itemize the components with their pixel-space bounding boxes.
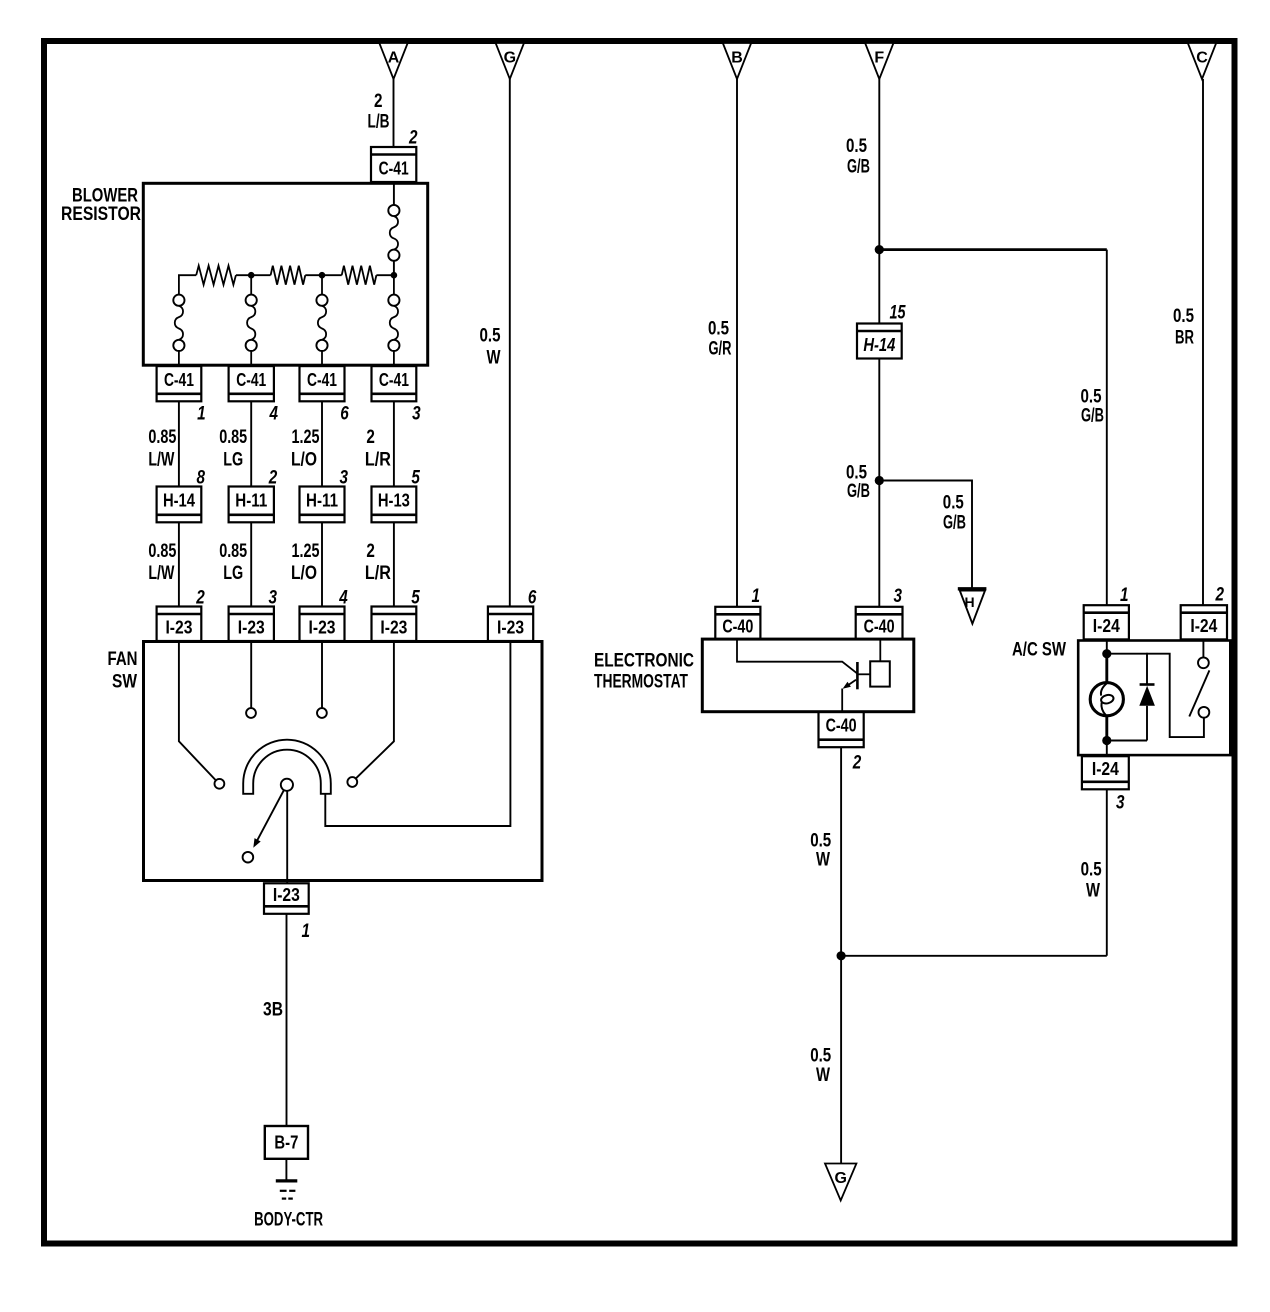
svg-text:G/B: G/B — [1081, 406, 1104, 427]
connector I-23 pin 1 (bottom) — [264, 883, 309, 914]
wire F to H-14 — [878, 79, 880, 324]
svg-text:G/R: G/R — [709, 339, 732, 360]
svg-text:L/R: L/R — [365, 563, 391, 584]
svg-text:1: 1 — [302, 921, 311, 942]
connector I-23 #3 — [300, 607, 345, 642]
svg-text:1.25: 1.25 — [292, 427, 320, 448]
wire C to I-24 pin 2 — [1202, 79, 1204, 605]
A/C switch upper contact circle — [1198, 657, 1209, 668]
wire C-41 #1 to H box — [178, 401, 180, 486]
wire G to I-23 pin 6 — [509, 79, 511, 607]
svg-text:0.5: 0.5 — [1081, 387, 1102, 408]
wire I-23 pin1 to B-7 — [286, 914, 288, 1126]
svg-text:I-23: I-23 — [380, 618, 407, 638]
wire coil branch 1 to box bottom — [178, 351, 180, 365]
svg-text:FAN: FAN — [108, 649, 138, 670]
svg-text:C-40: C-40 — [826, 716, 857, 736]
svg-text:3: 3 — [1116, 793, 1125, 814]
fan switch wire from pin 6 (to rotor arc) — [325, 642, 510, 827]
diode D1 — [1146, 653, 1148, 685]
svg-text:L/O: L/O — [291, 450, 317, 471]
wire node to coil branch 2 — [250, 275, 252, 295]
node junction dot (lamp top) — [1102, 649, 1111, 658]
svg-text:0.5: 0.5 — [846, 136, 867, 157]
fan switch contact circle (pin 4) — [317, 708, 327, 718]
wire junction to H ground (horizontal+vertical) — [879, 481, 972, 589]
svg-text:H-13: H-13 — [378, 491, 410, 511]
svg-text:L/O: L/O — [291, 563, 317, 584]
svg-text:L/R: L/R — [365, 450, 391, 471]
node junction dot (F to ground H) — [875, 476, 884, 485]
svg-text:C-41: C-41 — [379, 370, 409, 390]
wire down to I-24 pin 1 — [1106, 250, 1108, 606]
svg-text:I-23: I-23 — [497, 618, 524, 638]
svg-text:G/B: G/B — [847, 157, 870, 178]
svg-text:4: 4 — [269, 404, 279, 425]
wire coil to junction — [393, 261, 395, 275]
node junction dot (F to A/C SW) — [875, 245, 884, 254]
connector H-11 — [229, 487, 274, 523]
node junction dot 3 (resistor chain) — [391, 272, 398, 279]
transistor Q1 base bar — [856, 662, 859, 689]
connector C-41 (row) #2 — [229, 366, 274, 401]
svg-text:H-11: H-11 — [306, 491, 338, 511]
ground connector G (triangle) — [825, 1164, 856, 1201]
svg-text:I-24: I-24 — [1093, 616, 1120, 636]
page connector C (triangle) — [1188, 43, 1216, 79]
svg-text:5: 5 — [411, 468, 420, 489]
wire H-13 to I-23 — [393, 522, 395, 606]
svg-text:3: 3 — [269, 588, 278, 609]
resistor element coil branch 1 — [173, 295, 184, 351]
wire C-41 #4 to H box — [393, 401, 395, 486]
svg-text:2: 2 — [408, 128, 418, 149]
svg-text:5: 5 — [411, 588, 420, 609]
connector H-14 (F column) — [857, 324, 902, 359]
svg-text:0.85: 0.85 — [219, 541, 247, 562]
svg-text:8: 8 — [196, 468, 205, 489]
wire R2 to node — [305, 274, 341, 276]
connector I-24 pin 2 — [1181, 605, 1227, 639]
fan switch wire from pin 3 — [250, 642, 252, 709]
svg-text:2: 2 — [268, 468, 278, 489]
svg-text:2: 2 — [366, 541, 375, 562]
svg-text:0.5: 0.5 — [943, 493, 964, 514]
svg-text:C: C — [1196, 50, 1208, 67]
svg-text:2: 2 — [852, 753, 862, 774]
resistor R2 (chain middle) — [271, 266, 306, 285]
page connector B (triangle) — [723, 43, 751, 79]
indicator lamp L1 — [1090, 683, 1123, 716]
wire R3 to pin2 branch — [376, 274, 394, 276]
wire junction down to ground G — [840, 956, 842, 1164]
fan switch contact circle (pin 2) — [215, 779, 225, 789]
connector C-41 (row) #4 — [372, 366, 417, 401]
wire junction to A/C SW pin 1 (horizontal) — [879, 248, 1107, 251]
transistor Q1 collector wire — [859, 673, 871, 675]
svg-text:A: A — [388, 50, 400, 67]
fan switch wire from pin 4 — [321, 642, 323, 709]
blower resistor box — [143, 183, 427, 365]
ground symbol BODY-CTR — [276, 1179, 298, 1182]
svg-text:0.5: 0.5 — [810, 831, 831, 852]
svg-text:3: 3 — [412, 404, 421, 425]
svg-text:1: 1 — [197, 404, 206, 425]
svg-text:2: 2 — [1215, 585, 1225, 606]
wire lamp top dot to switch (over, down, over) — [1107, 654, 1204, 737]
wire node to coil branch 4 — [393, 275, 395, 295]
wire node to coil branch 3 — [321, 275, 323, 295]
wire sensor to C-40 pin 3 — [879, 639, 881, 661]
connector C-41 pin 2 (top) — [371, 147, 416, 182]
fan switch wire from pin 5 (diagonal to contact) — [356, 642, 394, 779]
wire C-41 pin2 into resistor box — [393, 182, 395, 205]
page connector F (triangle) — [865, 43, 893, 79]
svg-text:2: 2 — [366, 427, 375, 448]
svg-text:I-23: I-23 — [165, 618, 192, 638]
wire I-24 pin1 into A/C SW — [1106, 639, 1108, 650]
svg-text:L/W: L/W — [148, 450, 174, 471]
connector C-41 (row) #3 — [300, 366, 345, 401]
svg-text:15: 15 — [890, 303, 906, 324]
fan switch wiper arrow (lever) — [257, 790, 284, 840]
svg-text:RESISTOR: RESISTOR — [61, 204, 141, 225]
svg-text:LG: LG — [223, 563, 243, 584]
resistor element coil branch 4 — [388, 295, 399, 351]
electronic thermostat box — [702, 639, 914, 712]
wire C-41 #3 to H box — [321, 401, 323, 486]
resistor element coil branch 3 — [316, 295, 327, 351]
wire H-11 to I-23 — [250, 522, 252, 606]
svg-text:W: W — [1086, 881, 1100, 902]
svg-text:L/B: L/B — [368, 112, 390, 133]
fan switch wiper end circle — [243, 852, 254, 863]
wire A to connector C-41 pin 2 — [393, 79, 395, 147]
resistor element coil (top, pin2 branch) — [388, 205, 399, 261]
svg-text:L/W: L/W — [148, 563, 174, 584]
svg-text:C-40: C-40 — [722, 617, 753, 637]
connector H-14 — [157, 487, 202, 523]
svg-text:W: W — [816, 1065, 830, 1086]
connector I-23 #1 — [157, 607, 202, 642]
svg-text:W: W — [816, 850, 830, 871]
svg-text:3: 3 — [894, 586, 903, 607]
ground connector H (triangle) — [958, 587, 987, 590]
wire C-40 pin2 down — [840, 747, 842, 956]
node junction dot 1 (resistor chain) — [248, 272, 255, 279]
svg-text:W: W — [487, 348, 501, 369]
svg-text:BR: BR — [1175, 328, 1194, 349]
svg-text:2: 2 — [195, 588, 205, 609]
svg-text:I-23: I-23 — [273, 885, 300, 905]
svg-text:H-11: H-11 — [235, 491, 267, 511]
svg-text:A/C SW: A/C SW — [1012, 640, 1066, 661]
connector C-40 pin 1 — [715, 607, 760, 639]
fan switch wire from pin 2 (diagonal to contact) — [179, 642, 216, 781]
wire B-7 to ground — [285, 1159, 287, 1180]
connector I-24 pin 3 — [1082, 756, 1129, 789]
wire H-14 to I-23 — [178, 522, 180, 606]
node junction dot (W wires) — [837, 951, 846, 960]
svg-text:0.5: 0.5 — [1173, 306, 1194, 327]
wire left elbow of resistor chain — [179, 275, 196, 294]
wire diode bottom to lamp bottom dot — [1107, 740, 1147, 742]
connector I-23 #4 — [372, 607, 417, 642]
resistor R3 (chain right) — [342, 266, 377, 285]
svg-text:C-41: C-41 — [307, 370, 337, 390]
wire junction horizontal — [841, 955, 1107, 957]
svg-text:I-24: I-24 — [1190, 616, 1217, 636]
svg-text:G: G — [504, 50, 516, 67]
A/C switch lever — [1189, 670, 1209, 716]
svg-text:C-41: C-41 — [164, 370, 194, 390]
A/C switch box — [1078, 641, 1230, 756]
svg-text:G: G — [834, 1170, 846, 1187]
connector I-24 pin 1 — [1084, 605, 1129, 639]
svg-text:C-40: C-40 — [864, 617, 895, 637]
svg-text:C-41: C-41 — [379, 158, 409, 178]
svg-text:B: B — [731, 50, 743, 67]
connector I-23 #2 — [229, 607, 274, 642]
fan switch wiper pivot circle — [281, 779, 293, 791]
svg-text:H-14: H-14 — [863, 335, 895, 355]
resistor R1 (chain left) — [196, 266, 236, 285]
connector B-7 — [265, 1126, 308, 1159]
svg-text:0.85: 0.85 — [148, 541, 176, 562]
svg-text:F: F — [874, 50, 884, 67]
svg-text:THERMOSTAT: THERMOSTAT — [594, 672, 688, 693]
svg-text:0.5: 0.5 — [1081, 860, 1102, 881]
svg-text:0.5: 0.5 — [810, 1046, 831, 1067]
svg-text:SW: SW — [112, 672, 137, 693]
fan switch contact circle (pin 5) — [347, 777, 357, 787]
wire dot to lamp — [1105, 657, 1108, 683]
connector I-23 #5 — [488, 607, 533, 642]
A/C switch lower contact circle — [1199, 707, 1210, 718]
wire R1 to node — [236, 274, 271, 276]
svg-text:0.5: 0.5 — [708, 319, 729, 340]
svg-text:0.85: 0.85 — [219, 427, 247, 448]
fan switch contact circle (pin 3) — [246, 708, 256, 718]
svg-text:H-14: H-14 — [163, 491, 195, 511]
wire I-24 pin3 down — [1106, 789, 1108, 956]
connector C-40 pin 2 — [819, 712, 864, 748]
svg-text:1: 1 — [752, 586, 761, 607]
wire B to C-40 pin 1 — [736, 79, 738, 607]
connector C-40 pin 3 — [856, 607, 903, 639]
svg-text:6: 6 — [340, 404, 349, 425]
svg-text:1.25: 1.25 — [292, 541, 320, 562]
thermostat sensor element box — [870, 661, 890, 686]
svg-text:I-23: I-23 — [309, 618, 336, 638]
wire coil branch 2 to box bottom — [250, 351, 252, 365]
wire coil branch 4 to box bottom — [393, 351, 395, 365]
page connector G (triangle) — [496, 43, 524, 79]
wire lamp to bottom dot — [1105, 715, 1108, 737]
wire thermostat base input — [737, 639, 857, 673]
svg-text:0.85: 0.85 — [148, 427, 176, 448]
svg-text:3B: 3B — [263, 1000, 283, 1021]
wire H-14 to C-40 pin 3 — [878, 359, 880, 607]
svg-text:ELECTRONIC: ELECTRONIC — [594, 651, 694, 672]
svg-text:G/B: G/B — [943, 513, 966, 534]
svg-text:0.5: 0.5 — [480, 326, 501, 347]
svg-text:C-41: C-41 — [236, 370, 266, 390]
node junction dot (lamp bottom) — [1102, 736, 1111, 745]
svg-text:BODY-CTR: BODY-CTR — [254, 1210, 323, 1231]
svg-text:4: 4 — [338, 588, 348, 609]
svg-text:6: 6 — [528, 588, 537, 609]
connector H-13 — [372, 487, 417, 523]
wire emitter to C-40 pin 2 — [841, 689, 843, 712]
svg-text:I-24: I-24 — [1092, 759, 1119, 779]
svg-text:G/B: G/B — [847, 481, 870, 502]
wire H-11 to I-23 — [321, 522, 323, 606]
transistor Q1 emitter wire — [845, 680, 856, 687]
svg-text:B-7: B-7 — [274, 1133, 298, 1153]
resistor element coil branch 2 — [246, 295, 257, 351]
svg-text:3: 3 — [340, 468, 349, 489]
fan switch rotor arc — [243, 740, 331, 794]
wire dot to I-24 pin 3 — [1106, 741, 1108, 757]
connector H-11 — [300, 487, 345, 523]
svg-text:I-23: I-23 — [238, 618, 265, 638]
connector C-41 (row) #1 — [157, 366, 202, 401]
node junction dot 2 (resistor chain) — [319, 272, 326, 279]
svg-text:LG: LG — [223, 450, 243, 471]
fan switch box — [144, 642, 543, 881]
svg-text:1: 1 — [1120, 585, 1129, 606]
svg-text:2: 2 — [374, 91, 383, 112]
wire C-41 #2 to H box — [250, 401, 252, 486]
wire upper contact to I-24 pin 2 — [1202, 639, 1204, 657]
svg-text:H: H — [965, 594, 975, 610]
wire coil branch 3 to box bottom — [321, 351, 323, 365]
page connector A (triangle) — [379, 43, 407, 79]
wire pivot to I-23 pin 1 — [286, 791, 288, 883]
